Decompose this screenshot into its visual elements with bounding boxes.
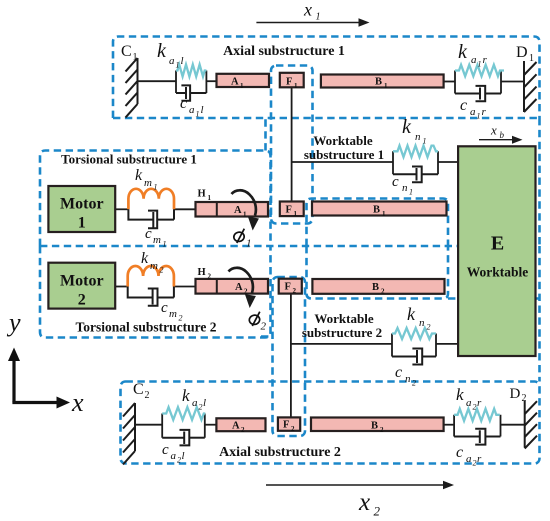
spring k_n2 <box>392 328 436 339</box>
svg-text:x: x <box>303 0 312 20</box>
mass block A2 bottom <box>216 418 265 431</box>
wire motor1 to coil m1 <box>115 208 128 210</box>
label D2 <box>510 386 527 404</box>
svg-text:a: a <box>189 104 195 116</box>
label c_a1r <box>460 97 487 121</box>
svg-text:1: 1 <box>423 137 427 146</box>
label c_a2r <box>456 444 482 468</box>
svg-text:2: 2 <box>291 425 295 433</box>
wire F column 1 vertical <box>291 87 293 201</box>
svg-text:a: a <box>466 397 472 409</box>
svg-text:F: F <box>283 420 289 431</box>
label block B1 top <box>375 77 388 91</box>
svg-text:E: E <box>491 233 504 255</box>
assembly a2l posts <box>162 414 205 438</box>
wall C1 <box>126 58 138 118</box>
svg-text:2: 2 <box>473 459 477 468</box>
svg-text:1: 1 <box>409 188 413 197</box>
label c_a2l <box>162 442 185 465</box>
svg-text:1: 1 <box>133 52 138 63</box>
svg-text:2: 2 <box>177 456 181 465</box>
svg-text:1: 1 <box>240 82 244 90</box>
svg-text:k: k <box>407 304 416 324</box>
label motor 1 <box>60 196 104 232</box>
svg-text:b: b <box>500 130 505 140</box>
spring k_a2l <box>162 407 205 420</box>
svg-text:A: A <box>235 282 243 293</box>
mass block B1 mid <box>312 202 447 216</box>
svg-text:c: c <box>161 300 168 316</box>
svg-text:1: 1 <box>196 110 200 119</box>
damper c_n2 rail and symbol <box>392 349 436 365</box>
wire assembly a2r to wall D2 <box>501 424 525 426</box>
label title axial substructure 2 <box>219 445 341 460</box>
svg-text:l: l <box>203 397 206 409</box>
svg-text:k: k <box>157 40 167 62</box>
svg-text:n: n <box>405 373 411 385</box>
svg-text:a: a <box>470 106 476 118</box>
label xb <box>490 123 505 141</box>
svg-text:x: x <box>71 388 84 417</box>
svg-text:m: m <box>153 234 161 246</box>
box screw B2 <box>307 246 449 299</box>
wire motor2 to coil m2 <box>115 286 128 288</box>
wall D2 <box>525 401 537 449</box>
svg-text:1: 1 <box>529 53 534 64</box>
svg-text:2: 2 <box>374 504 381 519</box>
label k_m2 <box>141 250 164 275</box>
label block A2 bottom <box>232 421 245 435</box>
svg-text:A: A <box>234 205 242 216</box>
wire F column 2 vertical <box>290 294 292 418</box>
svg-text:k: k <box>456 385 464 404</box>
svg-text:r: r <box>477 453 482 465</box>
svg-text:y: y <box>6 308 21 337</box>
box Axial substructure 1 <box>113 37 540 119</box>
svg-text:H: H <box>198 267 206 278</box>
label title worktable substructure 1 <box>304 133 384 162</box>
svg-text:k: k <box>135 167 143 184</box>
svg-text:B: B <box>371 421 378 432</box>
label block F1 top <box>286 77 298 91</box>
box Torsional substructure 1 <box>40 151 271 247</box>
label c_n2 <box>395 364 416 388</box>
arrow xb above E <box>479 136 523 144</box>
label phi1 <box>233 229 252 250</box>
mass block F2 mid <box>279 279 302 294</box>
svg-text:1: 1 <box>246 238 252 250</box>
svg-text:2: 2 <box>244 288 248 296</box>
wire assembly a1r to wall D1 <box>501 81 524 83</box>
box Torsional substructure 2 <box>40 246 271 338</box>
svg-text:1: 1 <box>316 12 321 23</box>
label block A2 row3 <box>235 282 248 296</box>
svg-text:a: a <box>171 450 177 462</box>
svg-text:r: r <box>477 397 482 409</box>
rotation arrow phi2 <box>229 268 256 308</box>
svg-text:B: B <box>372 282 379 293</box>
svg-text:a: a <box>466 453 472 465</box>
box F column 2 <box>273 277 306 436</box>
svg-text:l: l <box>181 55 184 67</box>
motor block Motor 1 <box>48 186 115 232</box>
svg-text:2: 2 <box>473 403 477 412</box>
svg-text:Torsional substructure 1: Torsional substructure 1 <box>61 152 197 167</box>
svg-text:c: c <box>395 364 402 381</box>
label H2 <box>198 267 212 281</box>
svg-text:1: 1 <box>294 82 298 90</box>
svg-text:2: 2 <box>522 393 527 404</box>
svg-text:c: c <box>460 97 467 114</box>
svg-text:H: H <box>198 189 206 200</box>
svg-text:substructure 1: substructure 1 <box>304 147 384 162</box>
label x1 axis top <box>303 0 321 23</box>
svg-text:n: n <box>402 182 408 194</box>
label x2 axis bottom <box>358 489 381 519</box>
wire assembly a2l to block A2 bottom <box>205 424 217 426</box>
spring k_a1r <box>455 65 504 76</box>
label block F2 bottom <box>283 420 295 434</box>
svg-text:m: m <box>150 260 158 272</box>
wire wall C1 to assembly a1l <box>138 80 177 82</box>
wall C2 <box>123 403 135 465</box>
label title worktable substructure 2 <box>302 311 382 340</box>
svg-text:F: F <box>285 282 291 293</box>
box screw B1 <box>307 199 449 247</box>
svg-text:a: a <box>169 55 175 67</box>
svg-text:2: 2 <box>261 321 267 333</box>
box Axial substructure 2 <box>121 382 540 464</box>
svg-text:x: x <box>490 123 497 138</box>
svg-text:C: C <box>133 381 144 398</box>
label H1 <box>198 189 212 203</box>
svg-text:Motor: Motor <box>60 196 104 213</box>
svg-text:2: 2 <box>179 314 183 323</box>
label axis x <box>71 388 84 417</box>
damper c_m2 frame and symbol <box>128 287 174 306</box>
axis arrow y <box>8 348 20 403</box>
svg-text:2: 2 <box>241 426 245 434</box>
svg-text:A: A <box>231 77 239 88</box>
mass block H1 A1 row2 <box>196 202 269 217</box>
damper c_m1 frame and symbol <box>128 209 174 228</box>
mass block B2 mid <box>312 279 444 294</box>
svg-text:m: m <box>144 177 152 189</box>
svg-text:2: 2 <box>381 288 385 296</box>
label title torsional substructure 1 <box>61 152 197 167</box>
svg-text:x: x <box>358 489 370 516</box>
damper c_a1r rail and symbol <box>455 86 501 101</box>
label k_n2 <box>407 304 431 332</box>
svg-text:k: k <box>402 116 412 138</box>
svg-text:1: 1 <box>176 61 180 70</box>
wire assembly a1l to block A1 top <box>206 80 216 82</box>
worktable block E <box>458 146 535 356</box>
svg-text:c: c <box>162 442 169 458</box>
label block B2 bottom <box>371 421 384 435</box>
arrow x2 bottom <box>266 481 454 489</box>
label k_a2r <box>456 385 482 412</box>
wire branch F2 to assembly n2 <box>291 343 392 345</box>
spring k_a1l <box>176 65 206 77</box>
svg-text:1: 1 <box>154 183 158 192</box>
mass block B2 bottom <box>311 418 444 432</box>
svg-text:r: r <box>482 106 487 118</box>
wire coil m2 to block H2 <box>174 286 196 288</box>
svg-text:2: 2 <box>78 292 86 309</box>
label block F1 mid <box>286 205 298 219</box>
svg-text:1: 1 <box>382 210 386 218</box>
wire wall C2 to assembly a2l <box>135 424 162 426</box>
svg-text:Worktable: Worktable <box>313 133 372 148</box>
rotation arrow phi1 <box>232 190 259 230</box>
wire assembly n2 to worktable E <box>436 343 459 345</box>
svg-text:A: A <box>232 421 240 432</box>
svg-text:D: D <box>510 386 521 402</box>
label c_m2 <box>161 300 183 323</box>
label D1 <box>516 44 534 64</box>
svg-text:Worktable: Worktable <box>314 311 373 326</box>
assembly n1 posts <box>393 151 438 174</box>
svg-text:F: F <box>286 205 292 216</box>
damper c_a2l rail and symbol <box>162 430 205 446</box>
assembly a1l posts <box>176 71 206 94</box>
wall D1 <box>524 61 537 112</box>
svg-text:1: 1 <box>477 112 481 121</box>
label block B1 mid <box>373 205 386 219</box>
svg-text:2: 2 <box>160 266 164 275</box>
damper c_a1l rail and symbol <box>176 85 206 100</box>
svg-text:1: 1 <box>163 240 167 249</box>
assembly n2 posts <box>392 334 436 357</box>
svg-text:Axial substructure 1: Axial substructure 1 <box>223 44 345 59</box>
svg-text:2: 2 <box>380 426 384 434</box>
svg-text:c: c <box>392 174 399 190</box>
label k_a1r <box>458 41 488 69</box>
arrow x1 top <box>256 18 369 26</box>
shared dashed divider line torsional-worktable <box>40 245 540 248</box>
label block F2 mid <box>285 282 297 296</box>
svg-text:c: c <box>456 444 463 461</box>
spring k_a2r <box>454 409 500 421</box>
mass block H2 A2 row3 <box>196 279 269 294</box>
svg-text:substructure 2: substructure 2 <box>302 325 382 340</box>
svg-text:D: D <box>516 44 528 61</box>
label k_n1 <box>402 116 427 146</box>
coil k_m1 <box>128 189 174 209</box>
svg-text:1: 1 <box>384 82 388 90</box>
label C2 <box>133 381 150 401</box>
label E worktable <box>467 233 529 280</box>
svg-text:Torsional substructure 2: Torsional substructure 2 <box>75 320 216 335</box>
spring k_n1 <box>393 146 438 157</box>
damper c_n1 rail and symbol <box>393 167 438 183</box>
label phi2 <box>248 312 266 333</box>
svg-text:l: l <box>201 104 204 116</box>
label block B2 mid <box>372 282 385 296</box>
coil k_m2 <box>128 266 174 287</box>
wire block B2 bottom to assembly a2r <box>444 424 455 426</box>
svg-text:2: 2 <box>293 287 297 295</box>
svg-text:n: n <box>415 131 421 143</box>
assembly a2r posts <box>454 415 500 437</box>
svg-text:2: 2 <box>427 323 431 332</box>
svg-text:1: 1 <box>243 211 247 219</box>
wire assembly n1 to worktable E <box>438 161 459 163</box>
label title torsional substructure 2 <box>75 320 216 335</box>
mass block F2 bottom <box>278 417 300 430</box>
svg-text:2: 2 <box>145 390 150 401</box>
svg-text:c: c <box>180 95 187 112</box>
label c_a1l <box>180 95 204 119</box>
svg-text:C: C <box>121 43 132 60</box>
box F column 1 <box>271 66 313 224</box>
svg-text:F: F <box>286 77 292 88</box>
label c_n1 <box>392 174 413 197</box>
mass block A1 top <box>217 74 270 87</box>
motor block Motor 2 <box>48 263 115 309</box>
svg-text:1: 1 <box>78 215 86 232</box>
svg-text:r: r <box>483 54 488 66</box>
label c_m1 <box>145 226 167 249</box>
svg-text:n: n <box>419 317 425 329</box>
svg-text:1: 1 <box>294 210 298 218</box>
label block A1 top <box>231 77 244 91</box>
label block A1 row2 <box>234 205 247 219</box>
svg-text:B: B <box>373 205 380 216</box>
svg-text:2: 2 <box>199 403 203 412</box>
label k_m1 <box>135 167 158 192</box>
wire branch F1 to assembly n1 <box>292 161 393 163</box>
svg-text:2: 2 <box>412 379 416 388</box>
svg-text:a: a <box>192 397 198 409</box>
damper c_a2r rail and symbol <box>454 429 500 445</box>
svg-text:m: m <box>169 308 177 320</box>
label motor 2 <box>60 273 104 309</box>
svg-text:k: k <box>458 41 468 63</box>
svg-text:1: 1 <box>478 60 482 69</box>
svg-text:1: 1 <box>208 194 212 202</box>
wire coil m1 to block H1 <box>174 208 196 210</box>
svg-text:l: l <box>182 450 185 462</box>
svg-text:c: c <box>145 226 152 242</box>
label C1 <box>121 43 138 63</box>
axis arrow x <box>12 397 70 409</box>
svg-text:a: a <box>471 54 477 66</box>
mass block F1 top <box>280 73 304 88</box>
svg-text:k: k <box>141 250 149 267</box>
svg-text:B: B <box>375 77 382 88</box>
label axis y <box>6 308 21 337</box>
label k_a2l <box>182 386 206 412</box>
mass block B1 top <box>321 75 444 88</box>
svg-text:2: 2 <box>208 273 212 281</box>
svg-text:Motor: Motor <box>60 273 104 290</box>
svg-text:Axial substructure 2: Axial substructure 2 <box>219 445 341 460</box>
mass block F1 mid <box>280 202 304 217</box>
label title axial substructure 1 <box>223 44 345 59</box>
assembly a1r posts <box>455 71 501 94</box>
label k_a1l <box>157 40 184 70</box>
svg-text:Worktable: Worktable <box>467 265 529 280</box>
svg-text:k: k <box>182 386 190 405</box>
box Worktable substructure 2 right edge <box>261 246 540 382</box>
wire block B1 top to assembly a1r <box>444 81 455 83</box>
box Worktable substructure 1 <box>266 118 540 246</box>
